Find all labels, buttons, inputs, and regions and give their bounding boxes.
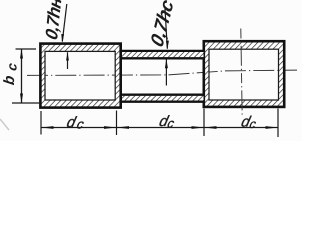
right box vertical centerline — [241, 29, 242, 118]
middle web bottom plate upper line — [122, 94, 204, 96]
arrows at x=204 — [192, 126, 205, 129]
left box section: hatched walls — [40, 44, 120, 108]
middle web bottom plate hatch — [122, 96, 204, 101]
dimension b_c: dimension line — [21, 49, 23, 103]
arrow down onto left box top wall outer edge — [61, 34, 64, 43]
svg-text:bc: bc — [1, 56, 19, 86]
left box outer contour — [40, 44, 120, 108]
right box outer contour — [204, 41, 284, 107]
dimension b_c: top extension line — [16, 48, 37, 50]
arrows at x=116.5 — [104, 126, 117, 129]
arrow right at x=278 — [266, 126, 279, 129]
extension line at x=204 — [203, 109, 205, 137]
middle web top plate upper line — [122, 50, 204, 52]
svg-text:0,7hс: 0,7hс — [148, 0, 179, 50]
bottom chain dimension: extension line at x=41 — [40, 111, 42, 135]
bottom dimension line — [41, 127, 278, 129]
arrow down onto web top plate upper edge — [166, 41, 169, 50]
middle web bottom plate lower line — [122, 101, 204, 103]
svg-text:dc: dc — [65, 114, 88, 132]
svg-text:dc: dc — [239, 113, 258, 131]
left box inner contour — [45, 51, 115, 100]
extension line at x=116.5 — [116, 111, 118, 136]
arrow up onto left box top wall inner edge (inside box) — [67, 52, 69, 69]
arrow left at x=41 — [41, 126, 54, 129]
leader line for 0,7hn — [62, 4, 67, 42]
arrow up onto web top plate lower edge (below) — [165, 60, 167, 86]
middle web top plate hatch — [122, 52, 204, 57]
right box inner contour — [209, 49, 279, 100]
dimension b_c: arrow up — [20, 49, 23, 59]
scan smudge bottom-left — [0, 119, 9, 130]
horizontal centerline (axis) — [27, 70, 297, 75]
leader line for 0,7hc — [165, 9, 167, 49]
middle web top plate lower line — [122, 57, 204, 59]
extension line at x=278 — [277, 109, 279, 138]
dimension b_c: bottom extension line — [12, 102, 40, 104]
dimension b_c: arrow down — [20, 94, 23, 104]
right box section: hatched walls — [204, 41, 284, 107]
